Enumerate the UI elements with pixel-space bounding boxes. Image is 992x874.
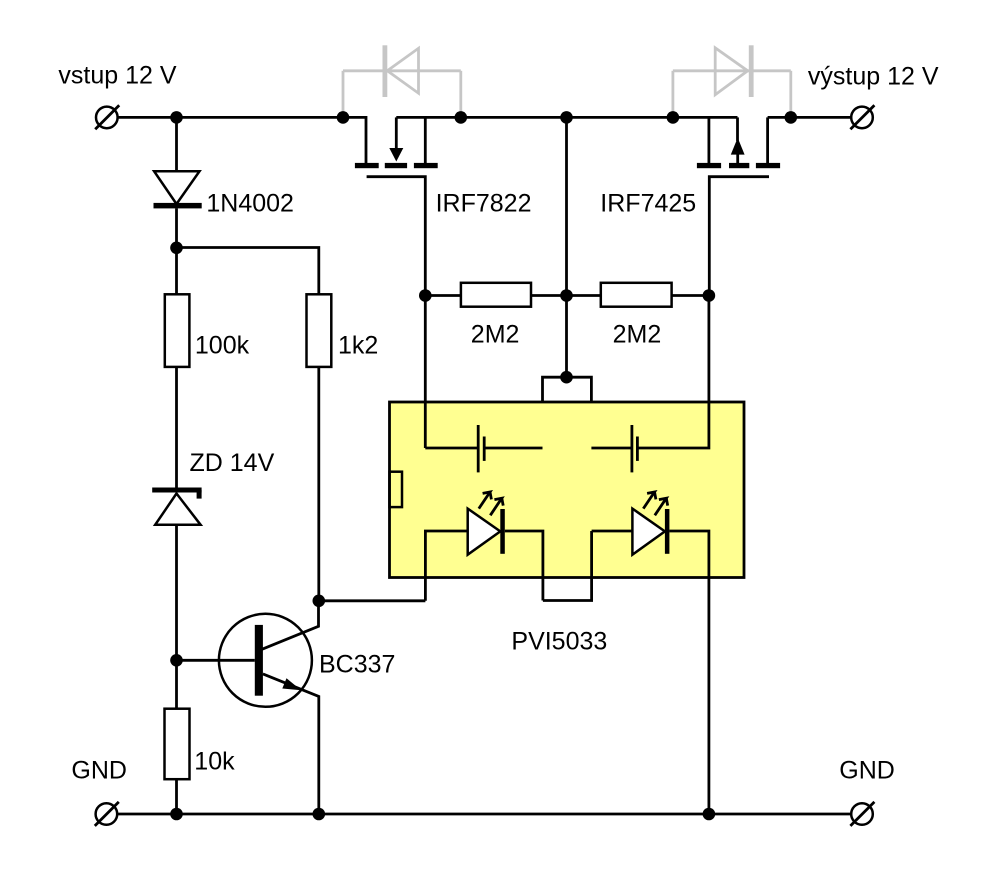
- svg-text:GND: GND: [839, 757, 895, 785]
- wire top rail right segment: [768, 116, 852, 119]
- junction rail D: [560, 111, 573, 124]
- junction gate right: [703, 289, 716, 302]
- ground rail: [118, 813, 851, 816]
- svg-text:10k: 10k: [194, 748, 235, 776]
- resistor 2M2 right: [601, 283, 672, 307]
- resistor 100k: [165, 294, 190, 367]
- junction base: [170, 654, 183, 667]
- wire battery2 right lead into gate feed right: [637, 296, 709, 449]
- wire LED2 cathode to ground: [669, 531, 709, 814]
- junction collector: [313, 595, 326, 608]
- svg-text:ZD 14V: ZD 14V: [190, 449, 275, 477]
- junction rail E: [667, 111, 680, 124]
- wire 1k2 to collector node: [317, 367, 320, 601]
- svg-text:2M2: 2M2: [471, 321, 520, 349]
- svg-text:2M2: 2M2: [613, 321, 662, 349]
- wire diode anode: [175, 117, 178, 172]
- junction gate left: [419, 289, 432, 302]
- gray body diode of IRF7822: [343, 45, 461, 116]
- wire top staple into chip: [543, 377, 592, 448]
- GND terminal right: [850, 802, 874, 826]
- wire collector node to optocoupler: [319, 599, 426, 602]
- photocell battery 2: [632, 425, 638, 472]
- zener diode ZD 14V: [152, 488, 201, 525]
- junction staple: [560, 371, 573, 384]
- transistor BC337: [219, 601, 319, 814]
- wire LED1 anode lead: [425, 531, 467, 601]
- junction ground A: [170, 808, 183, 821]
- optocoupler PVI5033 body: [390, 402, 745, 578]
- transistor IRF7822: [355, 117, 438, 295]
- resistor 2M2 left: [461, 283, 531, 307]
- wire zener to base node: [175, 525, 178, 709]
- photocell battery 1: [478, 425, 484, 472]
- wire LED1 cathode lead: [505, 531, 543, 601]
- wire 2M2 row middle: [531, 294, 601, 297]
- wire battery1 left lead: [425, 447, 478, 450]
- junction rail F: [785, 111, 798, 124]
- wire 2M2 row right: [672, 294, 709, 297]
- wire base: [177, 659, 255, 662]
- wire bottom staple: [543, 531, 592, 601]
- wire top rail middle segment: [396, 116, 737, 119]
- svg-text:IRF7822: IRF7822: [436, 190, 532, 218]
- junction rail A: [170, 111, 183, 124]
- junction 2M2 middle: [560, 289, 573, 302]
- svg-text:GND: GND: [71, 757, 127, 785]
- resistor 10k: [165, 709, 190, 780]
- junction diode bottom: [170, 242, 183, 255]
- gray body diode of IRF7425: [673, 45, 791, 116]
- wire 2M2 row left: [425, 294, 461, 297]
- wire diode cathode to 100k: [175, 208, 178, 294]
- wire center tap vertical: [565, 117, 568, 377]
- wire 10k to ground rail: [175, 779, 178, 814]
- LED 2: [632, 492, 669, 555]
- svg-text:1N4002: 1N4002: [206, 190, 294, 218]
- wire branch to 1k2: [177, 248, 319, 295]
- pin-1 tab: [390, 472, 403, 507]
- diode 1N4002: [154, 171, 202, 208]
- svg-text:PVI5033: PVI5033: [511, 627, 607, 655]
- LED 1: [468, 492, 505, 555]
- wire battery1 right lead: [484, 447, 542, 450]
- resistor 1k2: [307, 294, 332, 367]
- junction ground B: [313, 808, 326, 821]
- GND terminal left: [95, 802, 119, 826]
- svg-text:BC337: BC337: [319, 651, 395, 679]
- output terminal: [850, 105, 874, 129]
- junction rail C: [455, 111, 468, 124]
- wire LED2 anode lead: [592, 530, 633, 533]
- input terminal: [95, 105, 119, 129]
- junction rail B: [337, 111, 350, 124]
- wire 100k to zener: [175, 367, 178, 488]
- svg-text:vstup 12 V: vstup 12 V: [58, 62, 176, 90]
- svg-text:100k: 100k: [195, 332, 250, 360]
- wire gate feed into chip left: [424, 296, 427, 449]
- wire top rail left segment: [118, 117, 366, 163]
- svg-text:výstup 12 V: výstup 12 V: [808, 63, 939, 91]
- junction ground C: [703, 808, 716, 821]
- wire battery2 left lead: [591, 447, 632, 450]
- svg-text:IRF7425: IRF7425: [600, 190, 696, 218]
- svg-text:1k2: 1k2: [338, 332, 378, 360]
- transistor IRF7425: [697, 117, 780, 295]
